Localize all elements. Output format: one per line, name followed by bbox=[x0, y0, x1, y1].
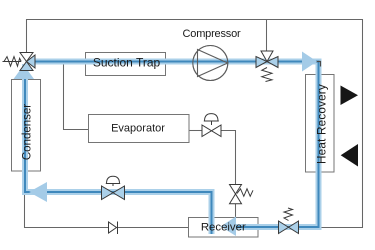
svg-text:Evaporator: Evaporator bbox=[111, 122, 165, 134]
svg-text:Compressor: Compressor bbox=[183, 28, 241, 40]
wire valve V4 to receiver top bbox=[235, 204, 237, 218]
wire stem to valve V2 bbox=[266, 20, 268, 53]
arrow flow right into heat recovery corner bbox=[302, 52, 317, 72]
box evaporator bbox=[89, 115, 190, 143]
wire suction line to evaporator bbox=[64, 62, 89, 130]
wire valve V3 to valve V4 bbox=[221, 131, 236, 186]
wire top loop from valve V1 up across to right side and down to bottom bbox=[27, 20, 363, 228]
pipe condenser to receiver line bbox=[25, 64, 212, 234]
svg-text:Receiver: Receiver bbox=[201, 222, 246, 234]
box receiver bbox=[189, 218, 259, 238]
arrow flow left toward condenser bbox=[29, 182, 47, 202]
air flow triangle left bbox=[341, 144, 358, 167]
box suction trap bbox=[86, 53, 166, 76]
box condenser bbox=[12, 80, 41, 172]
arrow flow up into valve V1 bbox=[14, 65, 35, 79]
valve V4 spring bbox=[237, 189, 253, 197]
valve V1 spring bbox=[4, 57, 21, 67]
box heat recovery bbox=[306, 75, 335, 173]
valve V2 spring bbox=[262, 68, 272, 82]
wire evaporator outlet to valve V3 bbox=[189, 130, 203, 132]
compressor U1 rotor triangle bbox=[198, 50, 228, 77]
valve V4 expansion valve with spring above receiver bbox=[230, 185, 242, 204]
arrow flow left inside receiver bbox=[221, 217, 237, 237]
valve V3 control valve after evaporator bbox=[202, 114, 221, 137]
check valve CV1 on bypass line bbox=[109, 222, 117, 233]
valve V2 three-way with spring, right of compressor bbox=[256, 51, 278, 68]
valve V3b control valve on liquid line bbox=[102, 176, 125, 199]
wire bottom bypass with check valve to receiver bbox=[25, 193, 189, 228]
svg-text:Heat Recovery: Heat Recovery bbox=[316, 84, 329, 164]
air flow triangle right bbox=[341, 86, 359, 106]
valve V5 spring bbox=[284, 208, 293, 221]
svg-text:Suction Trap: Suction Trap bbox=[93, 55, 161, 69]
valve V5 with spring on receiver inlet bbox=[279, 221, 299, 234]
pipe main suction and discharge line bbox=[34, 62, 319, 228]
valve V1 spring baseline bbox=[3, 61, 22, 63]
wire corner mark at discharge pipe corner bbox=[317, 62, 321, 67]
compressor U1 circle bbox=[193, 46, 228, 81]
svg-text:Condenser: Condenser bbox=[22, 104, 34, 160]
valve V1 three-way with spring, top-left bbox=[20, 53, 35, 71]
